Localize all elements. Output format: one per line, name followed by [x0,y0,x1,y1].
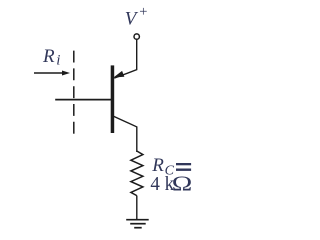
svg-text:+: + [139,4,147,20]
wire resistor to ground [136,196,138,219]
ground [126,220,149,228]
transistor Q1 base bar [111,65,115,133]
svg-text:V: V [125,8,139,29]
terminal V+ (open circle) [134,34,139,39]
resistor RC zigzag [131,151,143,196]
label 4 kOhm [150,174,174,196]
arrow indicating Ri looking-in direction [34,72,64,74]
svg-text:i: i [56,53,60,69]
wire from V+ terminal down to emitter [114,40,136,79]
dashed input-resistance boundary line [73,51,75,134]
wire base [55,99,111,101]
svg-text:Ω: Ω [172,172,193,195]
svg-text:R: R [42,46,55,67]
wire collector diagonal and down to resistor [114,116,137,152]
transistor Q1 emitter arrow (PNP, pointing into base bar) [115,72,124,78]
